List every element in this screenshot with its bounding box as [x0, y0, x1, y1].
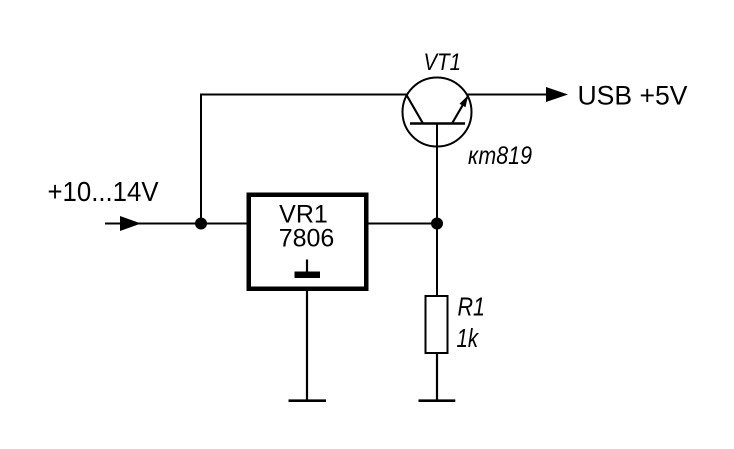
- transistor VT1 collector diagonal: [407, 95, 424, 124]
- ground VR1: [289, 399, 327, 402]
- svg-text:1k: 1k: [457, 325, 480, 353]
- wire input horizontal: [105, 223, 248, 225]
- svg-text:R1: R1: [458, 294, 486, 322]
- node A junction dot: [195, 218, 207, 230]
- wire VR1 ground lead: [306, 291, 308, 401]
- node B junction dot: [431, 218, 443, 230]
- transistor VT1 emitter diagonal: [452, 96, 468, 124]
- wire top horizontal to VT1 collector: [200, 94, 407, 96]
- transistor VT1 emitter arrowhead: [460, 96, 469, 108]
- svg-text:VT1: VT1: [424, 49, 462, 76]
- wire node B down to R1: [436, 224, 438, 296]
- svg-text:USB +5V: USB +5V: [578, 81, 688, 111]
- svg-text:кт819: кт819: [468, 142, 532, 170]
- ground R1: [419, 399, 456, 402]
- regulator VR1 ground-tab symbol bar: [295, 272, 321, 279]
- resistor R1 body: [426, 296, 448, 353]
- transistor VT1 base bar: [410, 122, 465, 125]
- wire R1 to ground: [436, 353, 438, 401]
- svg-text:7806: 7806: [279, 225, 335, 253]
- svg-text:+10...14V: +10...14V: [48, 176, 160, 207]
- wire VR1 output to node B: [369, 223, 438, 225]
- wire VT1 base down to node B: [436, 124, 438, 224]
- arrow input: [120, 216, 141, 231]
- wire vertical from node A up: [200, 95, 202, 224]
- arrow output: [546, 87, 568, 102]
- transistor Q1 VT1 body circle: [403, 78, 472, 147]
- regulator VR1 ground-tab symbol stem: [306, 260, 308, 273]
- wire emitter to output arrow: [467, 94, 548, 96]
- wire VR1 input (left pin): [201, 223, 246, 225]
- regulator U1 VR1 box: [249, 195, 367, 289]
